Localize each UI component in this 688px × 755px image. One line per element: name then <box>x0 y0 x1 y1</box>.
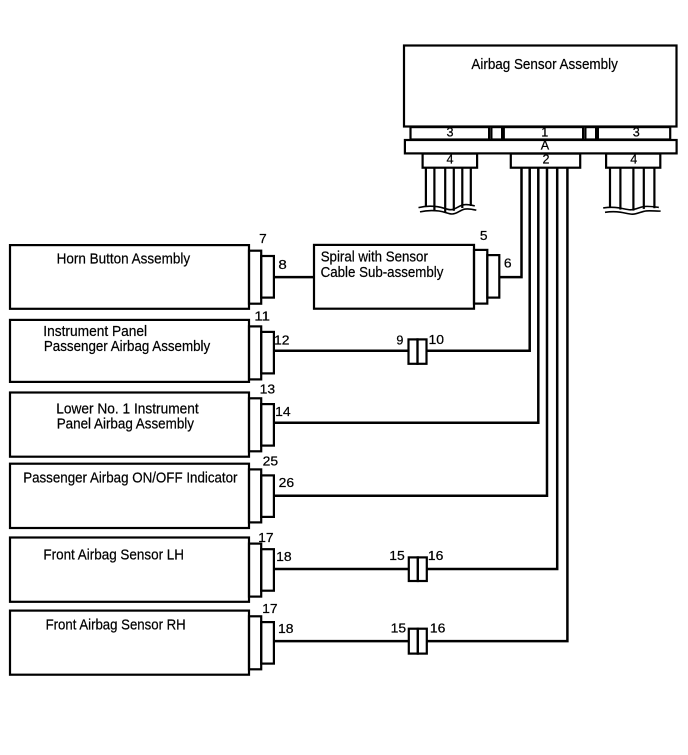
wire to connector 26 <box>274 168 547 496</box>
svg-text:17: 17 <box>258 531 274 545</box>
connector 14 <box>261 404 274 446</box>
connector row 3 right <box>598 127 670 139</box>
wire horn 8 to spiral <box>274 276 314 279</box>
horn connector 7 <box>249 251 261 304</box>
connector 4 left <box>423 154 478 168</box>
connector row 3 <box>411 127 490 139</box>
inline connector 16 RH <box>418 629 427 654</box>
svg-text:2: 2 <box>542 153 549 167</box>
wire to inline connector 10 <box>426 168 529 351</box>
svg-text:16: 16 <box>428 549 444 563</box>
wire to inline connector 16 RH <box>427 168 568 641</box>
wire to connector 14 <box>274 168 538 423</box>
centre wires from connector 2 <box>274 168 568 641</box>
horn connector 8 <box>261 256 274 298</box>
svg-text:1: 1 <box>541 126 548 140</box>
connector 12 <box>261 332 274 374</box>
wire connector-4-left lead 3 <box>444 168 446 212</box>
spiral connector 5 <box>474 250 487 304</box>
break symbol left, lower wave <box>420 209 476 214</box>
break symbol left, upper wave <box>419 205 475 210</box>
svg-text:16: 16 <box>430 622 446 636</box>
connector bar A <box>405 140 677 153</box>
inline connector 10 <box>418 339 427 363</box>
svg-text:Horn Button Assembly: Horn Button Assembly <box>57 251 191 268</box>
Front Airbag Sensor LH box <box>10 538 249 602</box>
connector 2 <box>511 154 580 168</box>
svg-text:10: 10 <box>429 333 445 347</box>
connector 4 right <box>606 154 660 168</box>
wire connector-4-left lead 2 <box>433 168 435 211</box>
svg-text:17: 17 <box>262 602 278 616</box>
wire connector-4-left lead 5 <box>461 168 463 208</box>
wire connector-4-left lead 1 <box>425 168 427 207</box>
wire 18 LH to 15 <box>274 568 409 571</box>
svg-text:18: 18 <box>278 622 294 636</box>
connector 26 <box>261 475 274 517</box>
break symbol right, upper wave <box>603 206 659 209</box>
wire connector-4-right lead 4 <box>643 168 645 209</box>
svg-text:12: 12 <box>274 334 290 348</box>
inline connector 15 LH <box>409 557 418 581</box>
connector 18 RH <box>261 622 274 664</box>
svg-text:18: 18 <box>276 550 292 564</box>
break symbol right, lower wave <box>605 211 661 214</box>
wire connector-4-right lead 1 <box>609 168 611 208</box>
Horn Button Assembly box <box>10 245 249 309</box>
connector 17 LH <box>249 544 261 597</box>
svg-text:3: 3 <box>633 126 640 140</box>
spiral connector 6 <box>487 255 499 298</box>
svg-text:15: 15 <box>389 549 405 563</box>
connector 13 <box>249 398 261 451</box>
wire to spiral connector 6 <box>499 168 521 277</box>
svg-text:Cable Sub-assembly: Cable Sub-assembly <box>321 264 444 281</box>
wire connector-4-left lead 4 <box>453 168 455 211</box>
connector row 1 <box>504 127 583 139</box>
Lower No.1 box <box>10 393 249 457</box>
svg-text:6: 6 <box>504 256 512 270</box>
svg-text:15: 15 <box>391 622 407 636</box>
svg-text:4: 4 <box>630 153 637 167</box>
narrow box right <box>585 127 596 139</box>
Instrument Panel box <box>10 320 249 382</box>
svg-text:A: A <box>541 139 550 153</box>
wire connector-4-right lead 5 <box>653 168 655 209</box>
svg-text:25: 25 <box>263 454 279 468</box>
connector 25 <box>249 469 261 522</box>
Passenger Airbag ON/OFF Indicator box <box>10 464 249 528</box>
svg-text:14: 14 <box>275 405 291 419</box>
wire connector-4-right lead 2 <box>619 168 621 210</box>
Airbag Sensor Assembly box <box>404 46 677 127</box>
wire connector-4-left lead 6 <box>470 168 472 206</box>
svg-text:Panel Airbag Assembly: Panel Airbag Assembly <box>57 416 195 433</box>
Spiral box <box>314 245 474 309</box>
svg-text:11: 11 <box>254 309 270 323</box>
svg-text:Front Airbag Sensor RH: Front Airbag Sensor RH <box>46 616 186 633</box>
svg-text:Airbag Sensor Assembly: Airbag Sensor Assembly <box>471 56 618 73</box>
svg-text:7: 7 <box>259 232 267 246</box>
svg-text:Front Airbag Sensor LH: Front Airbag Sensor LH <box>43 547 184 564</box>
wire 18 RH to 15 <box>274 640 409 643</box>
narrow box left <box>491 127 502 139</box>
Front Airbag Sensor RH box <box>10 611 249 675</box>
svg-text:Passenger Airbag ON/OFF Indica: Passenger Airbag ON/OFF Indicator <box>23 469 237 486</box>
svg-text:4: 4 <box>446 153 453 167</box>
connector 11 <box>249 326 261 379</box>
svg-text:8: 8 <box>278 258 286 272</box>
connector 17 RH <box>249 616 261 669</box>
wire connector-4-right lead 3 <box>632 168 634 211</box>
inline connector 15 RH <box>409 629 418 654</box>
wire to inline connector 16 LH <box>427 168 557 569</box>
svg-text:26: 26 <box>279 476 295 490</box>
svg-text:9: 9 <box>396 333 403 347</box>
wire 12 to 9 <box>274 349 409 352</box>
svg-text:13: 13 <box>260 382 276 396</box>
inline connector 9 <box>409 339 418 363</box>
connector 18 LH <box>261 549 274 591</box>
svg-text:5: 5 <box>480 229 488 243</box>
inline connector 16 LH <box>418 557 427 581</box>
svg-text:3: 3 <box>446 126 453 140</box>
svg-text:Passenger Airbag Assembly: Passenger Airbag Assembly <box>44 338 211 355</box>
